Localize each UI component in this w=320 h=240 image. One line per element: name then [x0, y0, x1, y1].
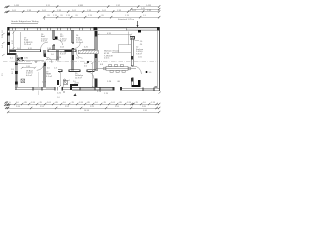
top wall corner piers — [7, 27, 160, 31]
wall v6 living divider (double) — [131, 38, 133, 85]
left lower wall piers — [15, 63, 18, 85]
svg-text:4.6 m²: 4.6 m² — [41, 40, 47, 43]
corridor wall dark segment — [65, 49, 73, 52]
wall v2 (double) — [72, 30, 74, 71]
top dim texts row1 — [14, 5, 152, 7]
dashed section line — [3, 61, 158, 63]
door gap in corridor wall (room 14) — [76, 49, 83, 52]
door arcs — [37, 42, 142, 87]
washing machine room19 — [64, 81, 68, 85]
title underline — [11, 22, 38, 24]
small circle symbol room19 — [64, 79, 66, 81]
left wall window mid line — [7, 36, 9, 43]
chimney block — [138, 29, 141, 33]
left wall piers — [7, 33, 10, 46]
ext line below bottom wall — [37, 91, 39, 96]
right end double slashes — [131, 103, 158, 109]
svg-text:4.27: 4.27 — [12, 39, 14, 44]
svg-text:Grundr. Erdgeschoss Wohng: Grundr. Erdgeschoss Wohng — [11, 21, 39, 23]
svg-text:11.9 m²: 11.9 m² — [75, 76, 82, 79]
svg-text:9.2 m²: 9.2 m² — [60, 53, 66, 56]
bottom dimension chain 2 — [8, 107, 159, 109]
door frame ticks in bottom opening — [58, 87, 62, 90]
kitchen counter lines — [112, 32, 131, 53]
small circle symbol — [18, 57, 20, 59]
black blob door WC — [55, 37, 57, 40]
left edge dim texts — [2, 29, 15, 74]
dim line in Flur — [47, 58, 58, 60]
bottom dimension chain 1 — [8, 103, 159, 105]
interior vertical dim line left room — [13, 31, 15, 50]
dot symbols — [87, 61, 89, 63]
light fill top wall right solid part — [127, 28, 157, 30]
svg-text:2.6 m: 2.6 m — [104, 58, 109, 60]
left edge ticks — [2, 33, 5, 56]
left small dark bar — [57, 80, 59, 85]
svg-text:1.435: 1.435 — [14, 5, 20, 7]
svg-text:5.1 m²: 5.1 m² — [46, 75, 52, 78]
left zigzag top — [5, 6, 9, 13]
left step wall — [7, 53, 17, 55]
left lower window mid line — [16, 74, 18, 82]
wall v1 WC (double) — [53, 30, 55, 50]
shower divider line room18 — [38, 72, 40, 87]
wall v5 major (double) — [95, 31, 97, 87]
svg-text:6.0 m²: 6.0 m² — [26, 74, 32, 77]
small dim right of v6 — [135, 40, 140, 42]
top wall outer line — [7, 26, 160, 28]
bottom wall mid — [72, 87, 113, 89]
terrace arrow — [74, 93, 77, 96]
WC door arc — [58, 40, 63, 45]
interior wall: corridor top (double line) — [10, 50, 96, 52]
vertical dim line inside right — [91, 63, 93, 87]
svg-text:3.2 m²: 3.2 m² — [60, 40, 66, 43]
door posts bottom — [113, 87, 115, 90]
entrance L wall — [132, 80, 140, 86]
bottom dimension chain 3 — [8, 111, 159, 113]
door gap in corridor wall (room 16/17) — [41, 49, 49, 52]
ticks short right line — [130, 8, 160, 11]
top wall inner line — [7, 29, 160, 31]
bottom wall right — [122, 87, 160, 89]
small wall left room — [16, 60, 44, 62]
left lower wall — [15, 53, 17, 90]
small gray box — [155, 86, 157, 88]
svg-text:14.99: 14.99 — [84, 110, 90, 112]
third dim line y17 — [44, 16, 160, 18]
svg-text:7.8 m²: 7.8 m² — [136, 52, 142, 55]
room label texts — [24, 34, 144, 93]
terrace L wall — [70, 84, 78, 90]
dimension ticks top line 2 — [7, 10, 160, 13]
top wall mullion ticks — [12, 28, 127, 31]
svg-text:10.3 m²: 10.3 m² — [76, 41, 83, 44]
svg-text:13.9 m²: 13.9 m² — [24, 43, 31, 46]
svg-text:1.435: 1.435 — [146, 5, 152, 7]
top dimension chain line 1 — [8, 7, 159, 12]
dimension ticks top line 1 — [7, 5, 160, 8]
dim line under top wall right — [98, 34, 131, 36]
section marker line — [137, 21, 139, 29]
v6 top cap — [130, 37, 134, 40]
wardrobe line top-left room — [20, 32, 22, 50]
bottom wall left — [15, 86, 55, 88]
hatched band (stairs) — [78, 50, 98, 54]
wall v3 mid (double) — [57, 50, 59, 61]
wall h2 lower mid (double) — [58, 70, 96, 72]
svg-text:4.385: 4.385 — [78, 5, 84, 7]
left zigzag cluster bottom — [4, 102, 11, 110]
right wall — [159, 27, 161, 91]
dim line room18 — [22, 67, 35, 69]
interior dim texts — [17, 33, 152, 95]
star symbol left — [17, 58, 20, 61]
wall v4 left corridor (double) — [44, 50, 46, 87]
sink fixture room18 — [21, 79, 25, 83]
dining table w/ chairs — [96, 65, 136, 73]
top dim short line right — [131, 8, 159, 10]
small square left room — [21, 57, 23, 59]
corner tick bottom right — [159, 92, 162, 94]
top dim texts row2 — [12, 10, 152, 12]
left wall upper — [6, 27, 8, 55]
top wall window middle line — [10, 28, 97, 30]
bottom wall window ticks — [33, 87, 63, 91]
vertical dim line x62.5 — [59, 72, 61, 86]
svg-text:Kniestock 1.25 m: Kniestock 1.25 m — [118, 18, 134, 21]
